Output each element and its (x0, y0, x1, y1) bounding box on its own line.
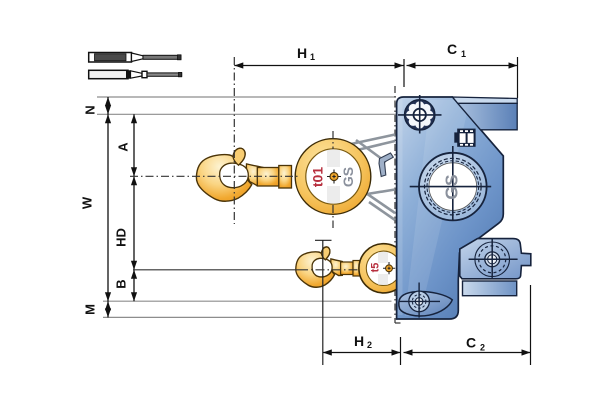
body sheen (398, 99, 403, 315)
svg-text:M: M (82, 304, 97, 315)
dimension B (113, 270, 137, 301)
tick small hook top (315, 239, 332, 241)
block bearing (469, 239, 518, 278)
centerline large hook horizontal (130, 175, 298, 177)
dimension H2 (323, 333, 401, 365)
centerline hoist left edge vertical dash-dot (394, 86, 396, 323)
base plate (463, 281, 517, 296)
large hook (196, 148, 263, 201)
top flange strip (453, 97, 518, 103)
reference line M lower (103, 316, 392, 318)
svg-text:1: 1 (310, 52, 315, 62)
svg-text:H: H (354, 333, 364, 349)
svg-text:t5: t5 (369, 263, 381, 273)
reference line B/M boundary (103, 300, 392, 302)
main bearing (410, 146, 492, 220)
svg-text:2: 2 (480, 343, 485, 353)
svg-text:GS: GS (441, 174, 461, 199)
dimension HD (113, 176, 137, 269)
dimension N (82, 97, 111, 115)
tick hoist dash L corner (395, 322, 401, 324)
small hook shank (341, 261, 361, 277)
reference line top (body top, N upper) (97, 96, 396, 98)
hoist main body (397, 97, 504, 319)
centerline small hook vertical (322, 240, 324, 365)
svg-text:H: H (297, 45, 307, 61)
flange plate (458, 103, 517, 129)
dimension W (79, 114, 111, 301)
dimension C2 (404, 285, 531, 365)
svg-text:HD: HD (113, 228, 128, 247)
svg-text:N: N (82, 105, 97, 114)
top bolt flange (398, 95, 442, 134)
large hook shank (257, 166, 291, 189)
dimension C1 (404, 41, 518, 98)
centerline large hook vertical (233, 57, 235, 224)
svg-text:C: C (466, 335, 476, 351)
centerline small hook horizontal (133, 269, 299, 271)
svg-text:W: W (79, 196, 94, 209)
chain guide symbol (454, 129, 475, 147)
dimension M (82, 301, 111, 317)
small bottom hook pulley (359, 244, 408, 293)
wire ropes (351, 135, 395, 221)
boss bearing (400, 283, 441, 318)
large bottom sheave pulley (295, 131, 371, 228)
load pin 2 (89, 70, 182, 78)
suspension block (460, 239, 531, 279)
svg-text:B: B (113, 279, 128, 288)
svg-text:C: C (447, 41, 457, 57)
reference line N lower / W upper (97, 113, 396, 115)
dimension H1 (234, 45, 403, 69)
svg-text:A: A (115, 142, 130, 152)
svg-text:t01: t01 (310, 167, 326, 187)
svg-text:2: 2 (367, 340, 372, 350)
bottom boss (399, 292, 453, 316)
svg-text:1: 1 (461, 49, 466, 59)
svg-text:GS: GS (340, 167, 356, 187)
small hook (296, 247, 343, 287)
rope anchor bracket (379, 153, 393, 177)
load pin 1 (89, 53, 181, 63)
dimension A (115, 114, 137, 176)
